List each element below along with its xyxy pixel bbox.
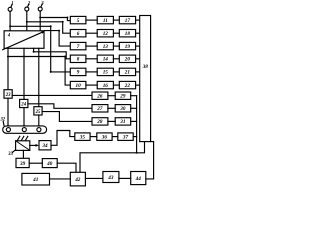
svg-text:10: 10 (76, 83, 82, 89)
svg-text:13: 13 (103, 44, 109, 50)
wire 23 down to commutator (7, 98, 9, 127)
wire block4 bottom rail to box10 (34, 48, 71, 59)
wire row4 stubs (86, 58, 140, 60)
svg-text:26: 26 (96, 94, 103, 100)
block 4 (3, 31, 45, 50)
label 32 leader (2, 122, 5, 126)
block 33 (16, 141, 30, 151)
svg-text:43: 43 (107, 175, 114, 181)
block 31 (115, 118, 131, 125)
wire 34 up over to 35 (51, 131, 75, 146)
block 20 (119, 55, 135, 62)
block 5 (70, 16, 86, 23)
block 13 (97, 42, 113, 49)
wire row5 stubs (86, 71, 140, 73)
block 44 (131, 172, 146, 185)
wire 42 to 43 (85, 177, 103, 179)
block 24 (20, 99, 28, 107)
svg-text:29: 29 (119, 94, 126, 100)
svg-text:22: 22 (124, 83, 131, 89)
block 6 (70, 30, 86, 37)
block 35 (75, 133, 90, 141)
block 41 (22, 173, 50, 185)
block 16 (97, 81, 113, 88)
svg-text:31: 31 (119, 119, 126, 125)
block 40 (42, 159, 57, 168)
svg-text:39: 39 (19, 161, 26, 167)
block 26 (92, 92, 108, 99)
wire 24 down to commutator (23, 108, 25, 128)
block 30 (115, 105, 131, 112)
wire 26 to 29 (108, 95, 115, 97)
svg-text:21: 21 (124, 70, 131, 76)
commutator 32 (3, 126, 47, 133)
block 34 (39, 141, 51, 150)
svg-text:19: 19 (125, 44, 131, 50)
svg-text:23: 23 (5, 93, 11, 98)
wire 39 to 40 (29, 162, 42, 164)
block 12 (97, 30, 113, 37)
wire row1 stubs (86, 19, 140, 21)
wire T3 feed to box5 (40, 18, 70, 21)
wire T1 feed to box7 (10, 26, 70, 72)
node arrow-out junction (58, 30, 60, 32)
svg-text:4: 4 (7, 34, 11, 39)
wire 27 to 30 (108, 107, 115, 109)
wire terminal2 down (26, 11, 28, 31)
svg-text:28: 28 (96, 119, 103, 125)
block 23 (4, 90, 12, 99)
svg-text:1: 1 (11, 2, 13, 7)
wire 29 to bus (131, 95, 137, 97)
svg-text:36: 36 (101, 134, 108, 140)
wire 38 bottom to 42 (80, 142, 145, 173)
block 10 (70, 81, 86, 88)
block 29 (115, 92, 131, 99)
terminal 1 (8, 4, 12, 11)
wire brush lines to 33 (17, 136, 28, 140)
svg-text:38: 38 (142, 64, 149, 70)
svg-text:20: 20 (124, 57, 131, 63)
wire 43 to 44 (119, 177, 131, 179)
svg-text:12: 12 (103, 31, 109, 37)
wire 44 up to 38 (146, 142, 154, 179)
block 19 (119, 42, 135, 49)
node bus join (136, 152, 138, 154)
svg-text:18: 18 (125, 31, 131, 37)
wire block4 bottom mid rail (23, 48, 25, 99)
wire row2 stubs (86, 32, 140, 34)
block 42 (70, 172, 85, 186)
svg-text:25: 25 (35, 110, 41, 115)
svg-text:44: 44 (135, 176, 142, 182)
wire 35 to 36 (90, 136, 97, 138)
svg-text:17: 17 (125, 18, 131, 24)
svg-text:16: 16 (103, 83, 109, 89)
wire 31 to bus (131, 120, 137, 122)
svg-text:14: 14 (103, 57, 109, 63)
wire terminal1 down (9, 11, 11, 31)
svg-text:5: 5 (77, 18, 80, 24)
block 14 (97, 55, 113, 62)
node T2 junction (26, 21, 28, 23)
block 21 (119, 68, 135, 75)
wire 37 to bus (133, 136, 136, 138)
block 28 (92, 118, 108, 125)
label 33 leader (12, 150, 15, 153)
node T3 junction (39, 17, 41, 19)
wire 30 to bus (131, 107, 137, 109)
svg-text:15: 15 (103, 70, 109, 76)
svg-text:3: 3 (40, 1, 44, 6)
svg-text:40: 40 (46, 161, 53, 167)
wire 33 down to 39 (22, 150, 24, 158)
block 27 (92, 105, 108, 112)
svg-text:32: 32 (0, 118, 6, 123)
svg-text:6: 6 (77, 31, 80, 37)
svg-text:35: 35 (79, 134, 86, 140)
node rail junction (7, 56, 9, 58)
wire block4 bottom left rail (7, 48, 9, 89)
svg-text:9: 9 (77, 70, 80, 76)
block 38 (140, 16, 151, 142)
wire T2 feed to box6 (27, 22, 71, 33)
wire 28 to 31 (108, 120, 115, 122)
svg-text:11: 11 (103, 18, 108, 24)
svg-text:41: 41 (32, 177, 39, 183)
wire terminal3 down (39, 11, 41, 31)
wire 24 to 27 (28, 104, 92, 109)
wire 33 to 34 arrow (30, 144, 39, 147)
wire 23 to 26 (12, 94, 92, 96)
block 8 (70, 55, 86, 62)
block 9 (70, 68, 86, 75)
node T1 junction (9, 25, 11, 27)
block 22 (119, 81, 135, 88)
wire 36 to 37 (112, 136, 118, 138)
wire row6 stubs (86, 84, 140, 86)
wire row3 stubs (86, 45, 140, 47)
block 36 (97, 133, 112, 141)
terminal 3 (38, 4, 42, 11)
wire 25 to 28 (42, 112, 92, 122)
block 43 (103, 172, 119, 183)
svg-text:2: 2 (27, 1, 31, 6)
block 37 (118, 133, 133, 141)
wire block4 arrow output to box9 (45, 31, 71, 46)
block 25 (34, 107, 42, 115)
wire branch to box8 (8, 57, 70, 86)
svg-text:8: 8 (77, 57, 80, 63)
block 39 (16, 158, 29, 167)
block 7 (70, 42, 86, 49)
svg-text:7: 7 (77, 44, 80, 50)
block 11 (97, 16, 113, 23)
block 17 (119, 16, 135, 23)
svg-text:33: 33 (7, 152, 13, 157)
wire 40 to 42 (57, 163, 76, 172)
wire 25 down to commutator (38, 115, 40, 128)
svg-text:37: 37 (122, 134, 129, 140)
svg-text:30: 30 (119, 106, 126, 112)
wire block4 bottom right rail (38, 48, 40, 106)
block 18 (119, 30, 135, 37)
wire right bus down (136, 96, 138, 153)
svg-text:24: 24 (20, 102, 26, 107)
block 15 (97, 68, 113, 75)
svg-text:42: 42 (74, 177, 81, 183)
wire 41 to 42 (50, 178, 71, 180)
svg-text:34: 34 (41, 143, 48, 149)
terminal 2 (25, 4, 29, 11)
svg-text:27: 27 (96, 106, 103, 112)
